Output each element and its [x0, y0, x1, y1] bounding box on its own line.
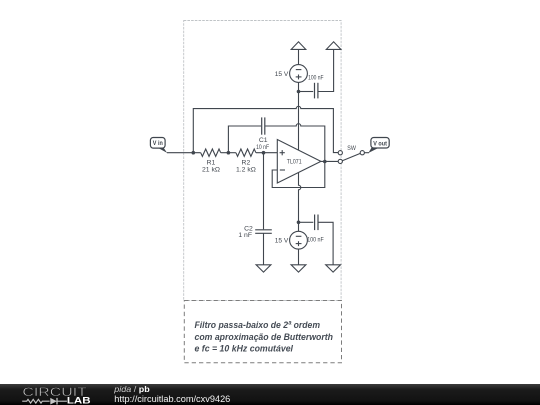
ground arrow (C4) — [326, 265, 341, 272]
resistor R2 — [236, 149, 256, 156]
op-amp U1 TL071 — [277, 140, 321, 184]
wire: Vcc node to bypass cap C3 — [299, 91, 314, 93]
wire: C3 right plate up to V+ arrow — [318, 49, 333, 91]
capacitor C4 100nF — [315, 215, 318, 231]
wire: feedback from output node down, left, up to inverting input — [272, 162, 325, 188]
junction dot Vcc node — [297, 90, 301, 94]
wire: op-amp output to switch lower throw — [321, 160, 338, 162]
CircuitLab logo — [22, 385, 90, 405]
junction dot Vee node — [297, 221, 301, 225]
svg-text:15 V: 15 V — [275, 238, 289, 245]
svg-text:LAB: LAB — [67, 395, 91, 405]
annotation dashed box — [184, 301, 341, 363]
wire: C1 right plate to output node (with hop over supply line) — [265, 124, 325, 162]
svg-text:V out: V out — [373, 140, 387, 147]
junction dot Vin node — [192, 151, 196, 155]
svg-text:Filtro passa-baixo de 2ª ordem: Filtro passa-baixo de 2ª ordem — [195, 320, 321, 330]
ground arrow (C2) — [256, 265, 271, 272]
annotation text — [195, 320, 334, 353]
wire: arrow stem to source V1 — [298, 49, 300, 64]
svg-text:100 nF: 100 nF — [307, 236, 324, 243]
svg-text:http://circuitlab.com/cxv9426: http://circuitlab.com/cxv9426 — [114, 394, 230, 404]
svg-text:TL071: TL071 — [287, 159, 302, 166]
node flag V in — [150, 138, 167, 153]
svg-text:10 nF: 10 nF — [256, 144, 269, 151]
svg-text:100 nF: 100 nF — [308, 75, 323, 82]
switch SW — [338, 145, 364, 163]
wire: Vin flag to R1 — [167, 152, 201, 154]
wire: node A up to C1 left plate — [228, 126, 261, 153]
footer bar — [0, 384, 540, 405]
junction dot output node — [323, 160, 327, 164]
capacitor C2 — [255, 230, 272, 234]
wire: switch common to Vout flag — [364, 152, 369, 154]
svg-text:R2: R2 — [242, 159, 251, 166]
capacitor C3 100nF — [315, 83, 318, 99]
power arrow V+ rail (left) — [291, 42, 306, 50]
svg-text:SW: SW — [347, 145, 356, 152]
wire: op-amp V- pin down to Vee node (hop over feedback) — [299, 172, 301, 232]
wire: R1 to R2 — [221, 152, 236, 154]
voltage source V2 15V — [290, 231, 308, 249]
node flag V out — [368, 138, 389, 154]
wire: +input node down to C2 — [263, 153, 265, 230]
svg-text:1.2 kΩ: 1.2 kΩ — [236, 166, 256, 173]
wire: R2 to op-amp + input — [256, 152, 277, 154]
wire: C2 to ground — [263, 233, 265, 264]
schematic outer dashed border — [184, 21, 341, 301]
junction dot node B (+input) — [262, 151, 266, 155]
svg-text:pida / pb: pida / pb — [113, 384, 149, 394]
svg-text:com aproximação de Butterworth: com aproximação de Butterworth — [195, 332, 334, 342]
wire: V2 to ground — [298, 249, 300, 265]
wire: Vee node to bypass cap C4 — [299, 221, 314, 223]
wire: V1 to op-amp V+ pin (vertical through dots) — [298, 82, 300, 151]
resistor R1 — [201, 149, 221, 156]
ground arrow (V2) — [291, 265, 306, 272]
wire: C4 right plate to ground — [319, 222, 334, 264]
svg-text:R1: R1 — [207, 159, 216, 166]
junction dot node A — [227, 151, 231, 155]
svg-text:21 kΩ: 21 kΩ — [202, 166, 220, 173]
wire: bypass net (Vin node up, across, down to switch upper throw) — [193, 106, 338, 152]
svg-text:1 nF: 1 nF — [238, 232, 252, 239]
voltage source V1 15V — [290, 65, 308, 83]
svg-text:C1: C1 — [259, 137, 268, 144]
svg-text:15 V: 15 V — [275, 71, 289, 78]
svg-text:e fc = 10 kHz comutável: e fc = 10 kHz comutável — [195, 344, 294, 354]
svg-text:V in: V in — [153, 140, 163, 147]
power arrow V+ rail (right) — [326, 42, 341, 50]
capacitor C1 — [262, 117, 265, 134]
